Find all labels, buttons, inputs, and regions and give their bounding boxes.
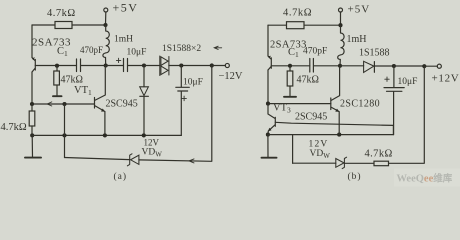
resistor R4 4.7k top b bbox=[287, 22, 305, 29]
diode D3 catch a bbox=[140, 66, 149, 136]
diode pair D1 D2 1S1588x2 a bbox=[160, 56, 169, 76]
svg-text:2SC1280: 2SC1280 bbox=[340, 99, 380, 110]
wire top rail a bbox=[32, 24, 106, 26]
wire zener row b bbox=[293, 66, 425, 163]
watermark WeeQee bbox=[394, 169, 460, 187]
ground a R2 bbox=[53, 95, 62, 97]
wire zener drop a bbox=[64, 104, 66, 158]
svg-text:−12V: −12V bbox=[219, 71, 243, 82]
transistor Q4 2SC945 b bbox=[268, 104, 275, 135]
zener VDW a bbox=[127, 154, 138, 166]
transistor Q3 2SA733 b bbox=[268, 56, 272, 70]
wire to dual diode a bbox=[144, 65, 160, 67]
wire base rail y104 b bbox=[268, 103, 331, 105]
capacitor C2 10uF series a bbox=[106, 58, 144, 71]
node cap branch a bbox=[179, 63, 183, 67]
svg-text:10μF: 10μF bbox=[183, 78, 203, 88]
+5V terminal b bbox=[339, 8, 343, 25]
wire zener row a bbox=[65, 66, 212, 162]
node top a bbox=[103, 23, 107, 27]
resistor R6 4.7k bottom b bbox=[374, 161, 389, 166]
node rail left b bbox=[266, 133, 270, 137]
svg-text:470pF: 470pF bbox=[303, 47, 327, 57]
node left rail y104 b bbox=[266, 102, 270, 106]
svg-text:WeeQee维库: WeeQee维库 bbox=[397, 173, 453, 185]
node zener drop y104 a bbox=[62, 102, 66, 106]
svg-text:10μF: 10μF bbox=[398, 77, 418, 87]
node mid a (inductor bottom) bbox=[104, 63, 108, 67]
node output leg a bbox=[210, 63, 214, 67]
capacitor C1 470pF a bbox=[77, 59, 106, 72]
svg-text:4.7kΩ: 4.7kΩ bbox=[1, 122, 27, 133]
svg-text:1mH: 1mH bbox=[347, 34, 367, 45]
svg-text:47kΩ: 47kΩ bbox=[297, 75, 319, 86]
svg-text:+5V: +5V bbox=[348, 4, 371, 16]
diode D4 1S1588 b bbox=[340, 61, 394, 72]
+12V terminal b bbox=[424, 64, 441, 68]
ground b main bbox=[262, 135, 277, 158]
+5V terminal a bbox=[104, 8, 108, 25]
inductor L1 1mH a bbox=[103, 25, 109, 66]
ground a main bbox=[25, 135, 41, 157]
svg-text:+5V: +5V bbox=[113, 1, 139, 15]
node rail left a bbox=[30, 133, 34, 137]
svg-text:2SC945: 2SC945 bbox=[295, 112, 327, 123]
node emitter rail a bbox=[103, 133, 107, 137]
resistor R3 4.7k left a bbox=[29, 104, 35, 135]
zener VDW b bbox=[336, 157, 347, 168]
svg-text:(b): (b) bbox=[348, 171, 362, 182]
node left rail y104 a bbox=[30, 102, 34, 106]
ground b R5 bbox=[284, 96, 296, 98]
svg-text:47kΩ: 47kΩ bbox=[61, 75, 83, 86]
wire base Q4 row b bbox=[275, 122, 393, 125]
transistor Q5 2SC1280 b bbox=[331, 66, 340, 135]
wire bottom rail a bbox=[32, 134, 181, 136]
svg-text:1S1588: 1S1588 bbox=[359, 48, 390, 59]
svg-text:2SC945: 2SC945 bbox=[106, 99, 138, 110]
svg-text:4.7kΩ: 4.7kΩ bbox=[283, 8, 312, 19]
wire base Q3 b bbox=[271, 65, 310, 67]
capacitor C5 10uF b bbox=[384, 66, 404, 135]
node diode rail a bbox=[142, 133, 146, 137]
node output leg b bbox=[422, 64, 426, 68]
wire left rail a bbox=[31, 25, 33, 104]
node emitter 1280 rail b bbox=[337, 133, 341, 137]
svg-text:470pF: 470pF bbox=[80, 45, 103, 55]
transistor Q2 2SC945 a bbox=[95, 66, 106, 136]
svg-text:1S1588×2: 1S1588×2 bbox=[162, 44, 201, 54]
capacitor C4 470pF b bbox=[310, 59, 340, 73]
wire bottom rail b bbox=[268, 125, 394, 134]
svg-text:4.7kΩ: 4.7kΩ bbox=[365, 149, 393, 160]
-12V terminal a bbox=[212, 63, 230, 67]
arrow mark base wire a bbox=[47, 102, 52, 106]
wire to output b bbox=[394, 65, 424, 67]
node diode branch a bbox=[142, 63, 146, 67]
wire diode to output a bbox=[169, 65, 212, 67]
svg-text:2SA733: 2SA733 bbox=[32, 37, 71, 49]
svg-text:10μF: 10μF bbox=[127, 48, 147, 58]
inductor L2 1mH b bbox=[338, 25, 344, 66]
arrow mark near 1S1588 label a bbox=[214, 46, 222, 49]
svg-text:+12V: +12V bbox=[432, 73, 460, 85]
wire zener drop b bbox=[292, 135, 294, 164]
node top b bbox=[338, 23, 342, 27]
node cap branch b bbox=[392, 64, 396, 68]
resistor R5 47k b bbox=[287, 66, 293, 96]
wire left rail b bbox=[267, 25, 269, 103]
node base b bbox=[288, 64, 292, 68]
capacitor C3 10uF output a bbox=[176, 66, 190, 136]
node drop cross rail a bbox=[62, 133, 66, 137]
arrow mark row a bbox=[189, 159, 194, 163]
svg-text:1mH: 1mH bbox=[114, 35, 133, 45]
svg-text:(a): (a) bbox=[114, 171, 128, 182]
node mid b (inductor bottom) bbox=[338, 64, 342, 68]
svg-text:12V: 12V bbox=[144, 138, 160, 148]
transistor Q1 2SA733 a bbox=[32, 57, 36, 72]
node base a bbox=[55, 64, 59, 68]
svg-text:12V: 12V bbox=[309, 140, 329, 150]
resistor R1 4.7k top a bbox=[55, 22, 72, 29]
wire base rail y104 a bbox=[32, 103, 95, 105]
wire base Q1 a bbox=[35, 65, 76, 67]
resistor R2 47k a bbox=[54, 66, 60, 96]
svg-text:4.7kΩ: 4.7kΩ bbox=[47, 8, 76, 19]
wire top rail b bbox=[268, 24, 341, 26]
